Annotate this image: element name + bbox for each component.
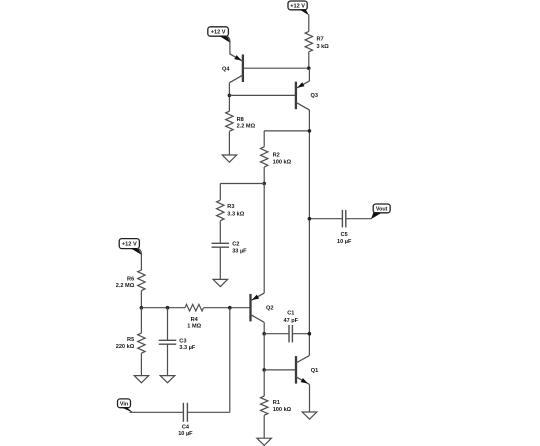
wire	[130, 411, 184, 413]
label Q2	[266, 306, 273, 312]
svg-text:R5: R5	[127, 337, 134, 343]
svg-text:10 µF: 10 µF	[337, 239, 352, 245]
ground	[134, 376, 149, 383]
wire	[219, 221, 221, 244]
svg-text:R7: R7	[317, 37, 324, 43]
wire	[228, 131, 230, 155]
wire	[167, 308, 169, 341]
svg-text:3.3 µF: 3.3 µF	[179, 345, 196, 351]
wire	[167, 344, 169, 375]
wire	[141, 307, 185, 309]
svg-text:3 kΩ: 3 kΩ	[317, 44, 330, 50]
svg-text:1 MΩ: 1 MΩ	[187, 324, 201, 330]
ground	[302, 412, 317, 419]
wire	[308, 15, 310, 32]
wire	[263, 415, 265, 438]
svg-text:Q4: Q4	[222, 66, 230, 72]
power label +12V (top right)	[288, 1, 309, 15]
svg-text:R1: R1	[273, 400, 280, 406]
svg-text:2.2 MΩ: 2.2 MΩ	[116, 283, 135, 289]
svg-text:Vin: Vin	[120, 401, 128, 407]
label R7 value	[317, 37, 330, 50]
wire	[220, 183, 264, 185]
svg-text:C2: C2	[232, 241, 239, 247]
svg-text:220 kΩ: 220 kΩ	[116, 344, 135, 350]
resistor R1	[261, 396, 268, 415]
svg-text:100 kΩ: 100 kΩ	[273, 407, 292, 413]
transistor Q2	[251, 293, 265, 322]
wire	[309, 218, 342, 220]
svg-text:33 µF: 33 µF	[232, 249, 247, 255]
wire	[229, 308, 231, 413]
capacitor C2	[212, 243, 230, 247]
svg-text:C5: C5	[341, 232, 348, 238]
label Q3	[311, 93, 318, 99]
svg-text:3.3 kΩ: 3.3 kΩ	[227, 212, 244, 218]
label C4 value	[178, 424, 193, 437]
wire	[263, 184, 265, 294]
svg-text:Q3: Q3	[311, 93, 318, 99]
signal label Vout	[371, 204, 390, 219]
svg-text:R6: R6	[127, 276, 134, 282]
label Q4	[222, 66, 230, 72]
label C2 value	[232, 241, 247, 254]
wire	[219, 184, 221, 201]
wire	[204, 307, 251, 309]
wire	[308, 52, 310, 68]
svg-text:R2: R2	[273, 153, 280, 159]
wire	[229, 94, 296, 96]
capacitor C1	[289, 325, 292, 343]
node Q4/Q3 base/R8	[228, 94, 232, 98]
svg-text:R3: R3	[227, 204, 234, 210]
resistor R7	[305, 31, 312, 51]
node R7/Q4/Q3	[307, 66, 311, 70]
svg-text:2.2 MΩ: 2.2 MΩ	[237, 124, 256, 130]
wire	[264, 333, 289, 335]
svg-text:C3: C3	[179, 338, 186, 344]
capacitor C5	[342, 210, 345, 228]
wire	[243, 67, 309, 69]
wire	[263, 370, 265, 396]
node output	[308, 217, 312, 221]
resistor R8	[226, 111, 233, 131]
label R3 value	[227, 204, 244, 217]
node R2/R3/Q2 emitter	[262, 182, 266, 186]
transistor Q4	[229, 54, 243, 83]
label R6 value	[116, 276, 135, 289]
label R4 value	[187, 317, 201, 330]
label R8 value	[237, 117, 256, 130]
wire	[219, 247, 221, 279]
signal label Vin	[118, 399, 134, 413]
capacitor C4	[183, 403, 187, 422]
wire	[346, 218, 372, 220]
node R6/R5	[140, 306, 144, 310]
svg-text:+12 V: +12 V	[290, 3, 305, 9]
wire	[309, 384, 311, 412]
label R1 value	[273, 400, 292, 413]
wire	[228, 83, 230, 112]
wire	[263, 167, 265, 184]
power label +12V (left)	[119, 239, 142, 255]
svg-text:C1: C1	[287, 311, 294, 317]
node C1/rail	[308, 332, 312, 336]
label R5 value	[116, 337, 135, 350]
node C3 tap	[166, 306, 170, 310]
wire	[264, 130, 309, 132]
resistor R4	[185, 304, 204, 311]
ground	[222, 155, 237, 162]
wire	[263, 131, 265, 147]
resistor R5	[138, 333, 145, 353]
wire	[308, 68, 310, 81]
svg-text:10 µF: 10 µF	[178, 431, 193, 437]
wire	[263, 322, 265, 334]
wire	[137, 248, 141, 270]
ground	[257, 438, 272, 445]
wire	[140, 308, 142, 333]
wire	[292, 333, 309, 335]
svg-text:C4: C4	[182, 424, 190, 430]
svg-text:47 pF: 47 pF	[283, 318, 298, 324]
svg-text:+12 V: +12 V	[122, 242, 137, 248]
label C1 value	[283, 311, 298, 324]
wire	[264, 369, 296, 371]
wire	[226, 36, 230, 54]
wire	[140, 353, 142, 375]
svg-text:R4: R4	[191, 317, 199, 323]
node Q2 collector/C1	[262, 332, 266, 336]
label Q1	[311, 368, 318, 374]
power label +12V (top left)	[208, 27, 231, 43]
svg-text:+12 V: +12 V	[211, 30, 226, 36]
svg-text:Q2: Q2	[266, 306, 273, 312]
resistor R3	[217, 200, 224, 221]
svg-text:R8: R8	[237, 117, 244, 123]
transistor Q3	[296, 81, 310, 110]
resistor R6	[138, 270, 145, 291]
label R2 value	[273, 153, 292, 166]
label C3 value	[179, 338, 196, 351]
ground	[160, 376, 175, 383]
ground	[213, 279, 228, 286]
node Q3 collector	[308, 129, 312, 133]
svg-text:100 kΩ: 100 kΩ	[273, 159, 292, 165]
node C4 riser	[228, 306, 232, 310]
resistor R2	[261, 147, 268, 167]
wire	[308, 110, 310, 356]
node Q1 base	[262, 368, 266, 372]
capacitor C3	[159, 340, 177, 344]
svg-text:Q1: Q1	[311, 368, 318, 374]
wire	[263, 334, 265, 370]
transistor Q1	[296, 355, 310, 384]
wire	[140, 291, 142, 308]
svg-text:Vout: Vout	[376, 206, 388, 212]
wire	[187, 411, 229, 413]
label C5 value	[337, 232, 352, 245]
